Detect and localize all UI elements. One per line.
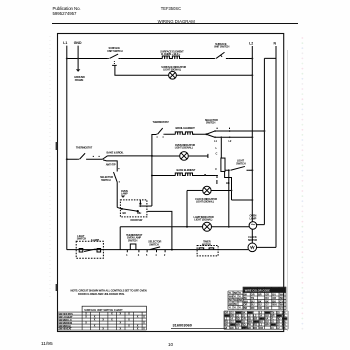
wire clock lamp right xyxy=(211,189,231,191)
wire oven indicator left xyxy=(152,155,180,157)
junction clock lamp right xyxy=(231,190,233,192)
timer contacts xyxy=(199,248,214,250)
clock motor label xyxy=(248,235,257,242)
right margin perforation dots xyxy=(302,37,304,330)
surface element label xyxy=(160,49,184,56)
selector stub lower xyxy=(216,175,218,184)
surface element heater xyxy=(162,56,182,58)
svg-text:RD: RD xyxy=(253,326,257,330)
junction wireA dots xyxy=(214,130,216,132)
surface unit switch S1 pole2 xyxy=(112,61,117,65)
broil element heater xyxy=(175,132,194,134)
svg-text:SWITCH: SWITCH xyxy=(236,161,246,165)
svg-text:OR: OR xyxy=(259,326,263,330)
thermostat oven lamp box left vertical xyxy=(119,227,121,250)
svg-text:UNIT SWITCH: UNIT SWITCH xyxy=(214,45,230,49)
selector switch label right xyxy=(205,118,218,125)
svg-text:RD: RD xyxy=(251,307,255,310)
parts table lower xyxy=(224,315,229,317)
junction wireC dots xyxy=(214,136,216,138)
junction L1 surface xyxy=(66,57,68,59)
selector blade lower left xyxy=(114,169,120,182)
timer dashed box xyxy=(197,245,218,255)
wire surface element to S2 xyxy=(182,57,214,59)
wire broil to selector xyxy=(193,133,206,135)
lamp symbol above box xyxy=(121,189,128,196)
svg-text:GY: GY xyxy=(280,307,284,310)
svg-text:L1: L1 xyxy=(63,41,67,45)
thermostat lamp cam contact xyxy=(130,244,136,250)
svg-text:OR: OR xyxy=(265,307,269,310)
surface unit switch S1 xyxy=(108,54,120,58)
wire selector drop xyxy=(220,137,222,158)
lamp box terminal top xyxy=(139,200,141,203)
frame tick mark left upper xyxy=(56,142,58,150)
oven indicator light label xyxy=(175,143,196,150)
wire indicator light right to L2 xyxy=(176,74,252,76)
svg-text:THERMOSTAT: THERMOSTAT xyxy=(76,146,93,150)
svg-text:BK: BK xyxy=(248,326,252,330)
svg-text:BR: BR xyxy=(239,299,243,302)
svg-text:MOTOR: MOTOR xyxy=(248,238,257,242)
parts table upper-right xyxy=(243,287,286,310)
svg-text:BU: BU xyxy=(234,303,238,306)
svg-text:YL: YL xyxy=(239,296,243,299)
svg-text:BK: BK xyxy=(229,299,233,302)
oven lamp circle xyxy=(249,222,257,230)
svg-text:BROIL ELEMENT: BROIL ELEMENT xyxy=(176,126,196,130)
bottom circuit wire xyxy=(67,249,248,251)
thermostat label lower xyxy=(76,146,93,150)
clock indicator lamp label xyxy=(195,197,217,204)
wire inner neutral bus vertical xyxy=(263,58,265,224)
svg-text:LIGHT (SIGNAL): LIGHT (SIGNAL) xyxy=(194,218,212,222)
svg-text:YL: YL xyxy=(234,296,238,299)
selector blade broil up xyxy=(206,131,214,134)
wire bake left xyxy=(152,174,176,176)
svg-text:C: C xyxy=(215,167,217,171)
wire L2 bus vertical xyxy=(251,46,253,243)
svg-text:11/95: 11/95 xyxy=(41,341,53,347)
thermostat switch lower xyxy=(78,153,88,159)
svg-text:WH: WH xyxy=(272,304,276,307)
border frame xyxy=(58,34,284,332)
wire clock lamp drop xyxy=(186,190,188,226)
wire L1 to thermostat xyxy=(67,158,78,160)
svg-text:WH: WH xyxy=(137,211,141,215)
junction jog L2 xyxy=(251,199,253,201)
svg-text:SWITCH: SWITCH xyxy=(77,237,87,241)
svg-text:NOTE: CIRCUIT SHOWN WITH ALL C: NOTE: CIRCUIT SHOWN WITH ALL CONTROLS SE… xyxy=(71,289,147,293)
svg-text:SWITCH: SWITCH xyxy=(149,242,159,246)
svg-text:GND: GND xyxy=(74,41,82,45)
junction lamp-L2 xyxy=(251,74,253,76)
lamp indicator label xyxy=(194,215,214,222)
junction light switch left xyxy=(228,169,230,171)
svg-text:LAMP: LAMP xyxy=(250,216,257,220)
HEADER xyxy=(52,6,298,24)
svg-text:SW HI HEAT: SW HI HEAT xyxy=(58,328,72,331)
svg-text:L2: L2 xyxy=(249,42,253,46)
svg-text:FRAME: FRAME xyxy=(75,78,84,82)
surface indicator lamp xyxy=(169,71,177,79)
broil element label xyxy=(176,126,196,130)
wire selector feed to oven block xyxy=(108,155,152,157)
wire selector top to inner bus xyxy=(215,130,265,132)
junction clock drop xyxy=(186,226,188,228)
wire light switch drop xyxy=(228,170,230,227)
arrow wire into lamp box xyxy=(141,205,152,207)
selector feed blade up xyxy=(103,156,108,159)
selector switch label left xyxy=(100,175,113,182)
svg-text:WH: WH xyxy=(265,323,269,327)
margin dotted line left xyxy=(49,36,51,300)
surface switch chart grid xyxy=(58,312,147,330)
MAIN SCHEMATIC xyxy=(63,41,276,258)
svg-text:SWITCH: SWITCH xyxy=(101,178,111,182)
wire selector body bottom jog xyxy=(225,171,232,200)
scan artifact line right xyxy=(287,50,289,331)
selector blade bottom xyxy=(150,247,160,250)
cam terminal ticks xyxy=(127,250,165,253)
svg-text:(LAMP): (LAMP) xyxy=(91,238,99,242)
svg-text:THERMOSTAT: THERMOSTAT xyxy=(153,120,170,124)
NOTE text xyxy=(71,289,147,297)
surface indicator light label xyxy=(161,65,186,72)
terminal labels wire C xyxy=(214,139,232,143)
wire thermostat to broil xyxy=(165,133,176,135)
svg-text:DOOR CLOSED AND UNLOCKED POS.: DOOR CLOSED AND UNLOCKED POS. xyxy=(78,292,125,296)
svg-text:SWITCH: SWITCH xyxy=(128,238,138,242)
wire indicator light left xyxy=(120,74,169,76)
thermostat label upper xyxy=(153,120,170,124)
junction broil end xyxy=(205,133,207,135)
svg-text:OR: OR xyxy=(258,307,262,310)
oven lamp label right xyxy=(250,214,257,221)
terminal tick labels xyxy=(126,253,166,257)
feed wire label xyxy=(107,151,124,155)
wire oven lamp to inner bus xyxy=(257,224,265,226)
door switch label below box xyxy=(131,218,143,222)
junction L1 thermostat xyxy=(66,158,68,160)
wire thermostat out with terminals xyxy=(88,156,103,159)
junction exit cross xyxy=(171,226,173,228)
lamp box internal switch xyxy=(117,207,138,211)
wire selector body to light switch xyxy=(225,169,229,171)
svg-text:BAKE & BROIL: BAKE & BROIL xyxy=(107,151,124,155)
FOOTER xyxy=(41,323,226,348)
svg-text:WH: WH xyxy=(229,296,233,299)
frame tick mark left lower xyxy=(56,284,58,291)
wire clock lamp left xyxy=(187,189,203,191)
svg-text:TEF350SC: TEF350SC xyxy=(161,6,181,11)
thermostat switch upper xyxy=(156,128,165,137)
wire oven indicator right xyxy=(188,154,208,158)
wire selector mid to L2 xyxy=(215,136,253,138)
BK label xyxy=(226,181,230,185)
timer motor label xyxy=(202,240,211,247)
surface unit switch S2 xyxy=(214,52,228,58)
terminal ticks wire A xyxy=(217,128,229,129)
svg-text:BK: BK xyxy=(230,326,234,330)
wire GND lead xyxy=(77,46,79,70)
ground frame symbol xyxy=(76,69,80,72)
svg-text:5995274957: 5995274957 xyxy=(53,11,78,16)
junction bake left xyxy=(151,174,153,176)
svg-text:10: 10 xyxy=(168,342,174,347)
wire lamp box exit xyxy=(148,211,172,249)
oven light switch xyxy=(231,166,249,170)
junction exit bottom xyxy=(171,249,173,251)
wire L1 bus vertical xyxy=(66,46,68,250)
svg-text:BR: BR xyxy=(244,307,248,310)
junction GND crossing xyxy=(77,58,79,60)
wire S1 pole2 drop xyxy=(115,66,120,76)
svg-text:BAKE ELEMENT: BAKE ELEMENT xyxy=(177,168,196,172)
junction lamp row light drop xyxy=(228,226,230,228)
bake element heater xyxy=(175,173,194,175)
svg-text:316003060: 316003060 xyxy=(173,323,192,328)
clock motor circle xyxy=(248,243,257,252)
junction surface-L2 xyxy=(251,57,253,59)
lower switch label xyxy=(77,234,100,242)
wire surface element feed xyxy=(120,57,162,59)
wire surface hot L1 to switch xyxy=(67,57,108,59)
selector switch label bottom xyxy=(148,240,161,247)
surface unit switch S2 label xyxy=(214,42,230,49)
svg-text:WH: WH xyxy=(234,299,238,302)
clock indicator lamp xyxy=(203,186,211,194)
svg-text:BR: BR xyxy=(258,294,262,297)
svg-text:SWITCH: SWITCH xyxy=(206,121,216,125)
parts table upper-left xyxy=(228,291,243,310)
lower switch blade xyxy=(84,249,96,251)
svg-text:BK: BK xyxy=(123,211,127,215)
lamp row wire xyxy=(120,226,249,228)
junction feed-ovenblock xyxy=(151,155,153,157)
junction light switch L2 xyxy=(251,169,253,171)
svg-text:11 OHMS + BLK +: 11 OHMS + BLK + xyxy=(161,52,181,56)
lamp indicator lamp xyxy=(203,222,212,231)
surface unit switch S1 label xyxy=(107,46,123,53)
oven lamp assembly dashed box xyxy=(120,200,146,217)
svg-text:C: C xyxy=(216,151,218,155)
wire bake to selector xyxy=(193,174,216,176)
svg-text:YL: YL xyxy=(234,307,238,310)
thermostat oven lamp switch label xyxy=(126,233,143,242)
svg-text:BK: BK xyxy=(226,181,230,185)
oven light switch label xyxy=(236,159,246,166)
oven block left vertical xyxy=(152,134,156,206)
wire jog to L2 xyxy=(232,199,253,201)
svg-text:GN: GN xyxy=(229,303,233,306)
wire light switch to L2 xyxy=(248,169,252,171)
svg-text:LIGHT (SIGNAL): LIGHT (SIGNAL) xyxy=(175,146,193,150)
selector terminal labels column xyxy=(215,146,218,179)
selector body rect xyxy=(221,158,225,171)
junction bake end xyxy=(204,174,206,176)
branch label xyxy=(106,163,116,167)
wire N jog to inner bus xyxy=(264,57,276,59)
lower switch terminals xyxy=(79,248,100,252)
wire selector lamp branch xyxy=(103,160,117,172)
svg-text:ANTI-TIP: ANTI-TIP xyxy=(106,163,116,167)
svg-text:WIRE COLOR CODE: WIRE COLOR CODE xyxy=(245,288,270,292)
svg-text:SURFACE UNIT SWITCH CHART: SURFACE UNIT SWITCH CHART xyxy=(84,309,123,312)
bake element label xyxy=(177,168,196,172)
oven indicator lamp xyxy=(180,152,189,161)
svg-text:LAMP: LAMP xyxy=(121,192,128,196)
wire N bus vertical xyxy=(275,46,277,247)
svg-text:YL: YL xyxy=(229,307,233,310)
lamp box labels xyxy=(123,211,142,215)
ground frame label xyxy=(74,75,85,82)
svg-text:UNIT SWITCH: UNIT SWITCH xyxy=(107,49,123,53)
selector blade broil down xyxy=(206,134,214,137)
wire clock motor to N xyxy=(257,246,276,248)
wire S2 to L2 xyxy=(228,57,252,59)
svg-text:YL: YL xyxy=(239,307,243,310)
svg-text:DOOR SW: DOOR SW xyxy=(131,218,143,222)
surface switch chart title box xyxy=(82,306,146,312)
oven light switch dashed box lower xyxy=(76,241,103,258)
svg-text:LIGHT (SIGNAL): LIGHT (SIGNAL) xyxy=(196,200,214,204)
wire selector to lamp box xyxy=(116,182,118,207)
